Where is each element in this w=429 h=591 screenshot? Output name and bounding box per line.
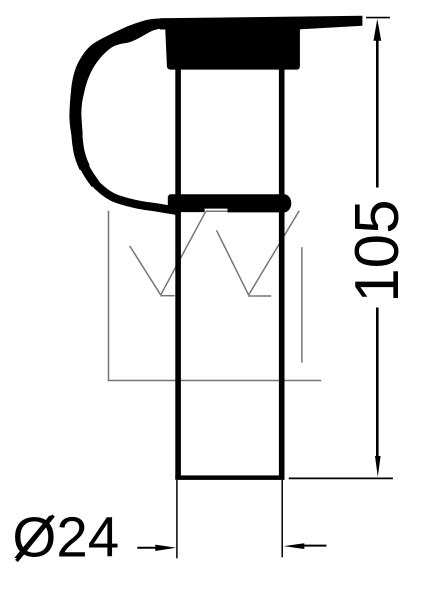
dimension 105: top arrow — [374, 19, 382, 41]
watermark logo box bottom — [108, 380, 322, 382]
watermark M left foot — [160, 295, 174, 297]
dimension 105: bottom extension line — [289, 477, 393, 479]
hook left lower segment — [77, 131, 85, 168]
watermark M left up-stroke — [161, 211, 206, 295]
dimension 105: lower line segment — [376, 308, 379, 458]
dimension 105: bottom arrow — [375, 456, 381, 477]
dimension 105: upper line segment — [376, 40, 379, 188]
dimension O24: left extension line — [176, 480, 178, 558]
dimension O24: left arrow — [137, 547, 158, 549]
cap (top fitting) — [165, 20, 300, 70]
dimension 105: top tick — [366, 17, 390, 19]
watermark M right foot — [248, 295, 271, 297]
hook bottom tapered end into collar — [93, 182, 181, 212]
dimension O24: diameter slash extension — [17, 516, 54, 562]
hook (C-shaped bent rod) upper thick part — [69, 18, 166, 135]
collar — [168, 194, 291, 212]
dimension O24: right extension line — [281, 480, 283, 557]
watermark M middle cap — [206, 210, 228, 212]
svg-text:Ø24: Ø24 — [12, 506, 119, 569]
watermark M right up-stroke — [249, 211, 300, 295]
svg-text:105: 105 — [343, 199, 412, 302]
dimension O24: right arrow — [284, 543, 305, 549]
hook bottom-left corner segment — [83, 165, 95, 185]
watermark M left down-stroke — [130, 246, 161, 295]
tube left wall — [175, 66, 181, 478]
watermark logo box right vertical — [301, 247, 303, 362]
watermark M right down-stroke — [217, 230, 249, 294]
watermark logo box left vertical — [108, 211, 110, 381]
tube bottom edge — [175, 475, 284, 480]
tube right wall — [279, 66, 285, 478]
top bar — [160, 16, 362, 30]
